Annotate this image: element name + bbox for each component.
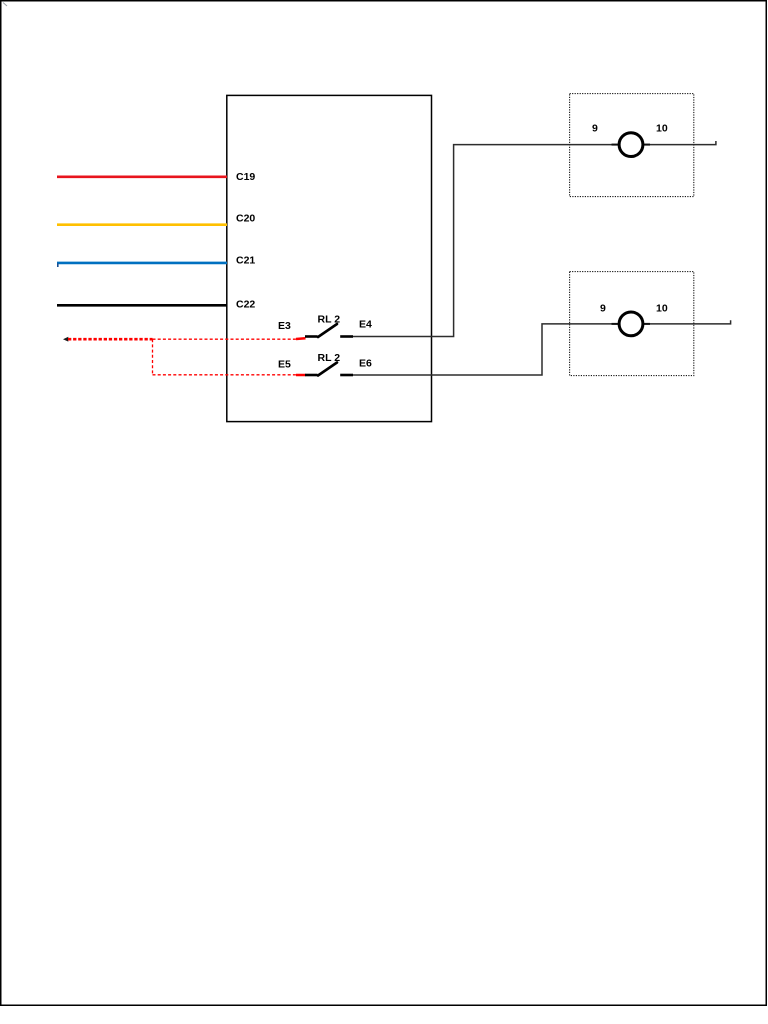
svg-text:C20: C20 [236, 213, 255, 225]
svg-text:C21: C21 [236, 255, 255, 267]
svg-text:RL 2: RL 2 [318, 314, 341, 326]
svg-text:C19: C19 [236, 171, 255, 183]
svg-text:10: 10 [656, 303, 668, 315]
svg-text:9: 9 [600, 303, 606, 315]
svg-text:10: 10 [656, 123, 668, 135]
svg-text:E3: E3 [278, 320, 291, 332]
svg-text:C22: C22 [236, 299, 255, 311]
svg-text:9: 9 [592, 123, 598, 135]
svg-text:E4: E4 [359, 319, 372, 331]
svg-text:E6: E6 [359, 358, 372, 370]
svg-text:RL 2: RL 2 [318, 352, 341, 364]
svg-text:E5: E5 [278, 359, 291, 371]
